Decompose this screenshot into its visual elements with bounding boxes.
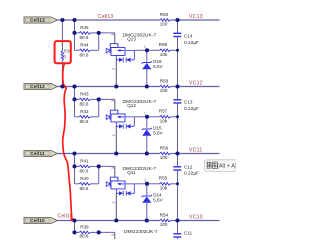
resistor R59 [147, 49, 178, 52]
transistor Q13 [106, 44, 134, 63]
svg-text:VC10: VC10 [189, 215, 203, 221]
connector Cell13 [24, 17, 58, 23]
junction source on Cell12 rail [114, 84, 118, 88]
value C12 0.22uF [184, 171, 199, 177]
svg-text:VC12: VC12 [189, 81, 203, 87]
wire cap bus upper [177, 20, 179, 33]
wire drain Q11 [134, 183, 147, 185]
value D15 5.6V [153, 130, 163, 135]
svg-text:R44: R44 [80, 42, 89, 47]
wire cap bus upper [177, 87, 179, 100]
svg-text:Cell10: Cell10 [30, 218, 45, 223]
svg-text:C12: C12 [184, 165, 193, 170]
wire pair right vertical [98, 33, 100, 50]
svg-text:2: 2 [112, 68, 116, 70]
connector Cell12 [24, 83, 58, 89]
wire gate feed Q11 [99, 166, 115, 177]
wire cap bus upper (C11) [177, 221, 179, 234]
junction pair left (Q10) [72, 230, 76, 234]
label VC13 [189, 14, 203, 20]
transistor Q11 [106, 177, 134, 196]
svg-text:10k: 10k [160, 119, 168, 124]
value R56 100 [160, 155, 168, 160]
pin 3 Q12 [111, 100, 115, 102]
svg-text:2: 2 [112, 201, 116, 203]
junction cap bus [176, 49, 179, 52]
svg-text:Q12: Q12 [127, 103, 136, 108]
junction gate node [145, 182, 149, 186]
svg-text:1: 1 [144, 111, 146, 115]
label Q11 [127, 170, 136, 175]
label R36 [64, 48, 72, 53]
resistor R42 [75, 116, 99, 119]
svg-text:3: 3 [111, 234, 115, 236]
capacitor C14 [173, 33, 181, 36]
svg-text:80.6: 80.6 [80, 119, 89, 124]
value R39 80.6 [80, 234, 89, 239]
value R54 100 [160, 222, 168, 227]
junction pair left [72, 97, 76, 101]
value R40 80.6 [80, 186, 89, 191]
svg-text:R45: R45 [80, 25, 89, 30]
value R59 10k [160, 52, 168, 57]
resistor R36 0R [61, 51, 64, 61]
label Q12 [127, 103, 136, 108]
svg-text:3: 3 [111, 167, 115, 169]
svg-text:C14: C14 [184, 33, 193, 38]
label R55 [159, 175, 168, 180]
svg-text:80.6: 80.6 [80, 186, 89, 191]
junction cap bus [176, 182, 179, 185]
junction cap bus [176, 115, 179, 118]
junction pair right [97, 97, 101, 101]
svg-text:10k: 10k [160, 186, 168, 191]
wire pair right vertical [98, 99, 100, 116]
svg-text:5.6V: 5.6V [153, 130, 163, 135]
resistor R58 [160, 85, 178, 88]
label D16 [153, 59, 162, 64]
svg-text:Cell11: Cell11 [30, 151, 45, 156]
junction pair left [72, 31, 76, 35]
wire gate feed Q10 [99, 232, 115, 239]
svg-text:R54: R54 [160, 212, 169, 217]
svg-text:100: 100 [160, 155, 168, 160]
wire pair right vertical [98, 166, 100, 183]
svg-text:R39: R39 [80, 224, 89, 229]
label D15 [153, 125, 162, 130]
diode D15 zener [142, 117, 152, 154]
junction VC11/cap node [175, 151, 179, 155]
svg-text:1: 1 [144, 178, 146, 182]
svg-text:R40: R40 [80, 176, 89, 181]
tooltip screenshot (Alt+A) [205, 160, 239, 172]
value R44 80.6 [80, 52, 89, 57]
junction balance pair Cell11 [72, 151, 76, 155]
svg-text:5.6V: 5.6V [153, 197, 163, 202]
resistor R39 [75, 231, 99, 234]
junction balance pair Cell10 [72, 218, 76, 222]
svg-text:5.6V: 5.6V [153, 64, 163, 69]
junction R36 branch [60, 18, 64, 22]
net label Cell13 [98, 14, 113, 20]
svg-text:1: 1 [144, 45, 146, 49]
label C12 [184, 165, 193, 170]
junction VC10/cap node [175, 218, 179, 222]
label R40 [80, 176, 89, 181]
junction source on Cell11 rail [114, 151, 118, 155]
wire VC11 stub [178, 153, 220, 155]
wire cap bus lower [177, 103, 179, 153]
value R55 10k [160, 186, 168, 191]
junction R36 on Cell12 rail [60, 84, 64, 88]
wire drain Q12 [134, 116, 147, 118]
svg-text:R60: R60 [160, 12, 169, 17]
junction pair right (Q10) [97, 230, 101, 234]
svg-text:R59: R59 [159, 42, 168, 47]
resistor R44 [75, 49, 99, 52]
svg-text:C11: C11 [184, 231, 193, 236]
value D16 5.6V [153, 64, 163, 69]
resistor R56 [160, 152, 178, 155]
capacitor C11 [173, 234, 181, 237]
wire R36 upper [61, 20, 63, 51]
value R57 10k [160, 119, 168, 124]
resistor R43 [75, 98, 99, 101]
label R58 [160, 78, 169, 83]
svg-text:R58: R58 [160, 78, 169, 83]
label Q13 [127, 37, 136, 42]
label R57 [159, 108, 168, 113]
wire cap bus upper [177, 154, 179, 167]
label R43 [80, 91, 89, 96]
net label Cell10 [58, 214, 73, 220]
junction VC13/cap node [175, 18, 179, 22]
svg-text:Q11: Q11 [127, 170, 136, 175]
capacitor C12 [173, 167, 181, 170]
wire VC10 stub [178, 220, 220, 222]
connector Cell11 [24, 150, 58, 156]
junction pair right [97, 31, 101, 35]
wire Cell11 rail [58, 153, 160, 155]
value R41 80.6 [80, 168, 89, 173]
svg-text:80.6: 80.6 [80, 101, 89, 106]
svg-text:R55: R55 [159, 175, 168, 180]
wire pair left vertical [74, 154, 76, 184]
capacitor C13 [173, 100, 181, 103]
wire R36 lower [61, 61, 63, 87]
resistor R41 [75, 165, 99, 168]
label C13 [184, 99, 193, 104]
wire source Q12 [115, 127, 117, 154]
label Q10 part [124, 229, 158, 235]
wire source Q11 [115, 194, 117, 221]
pin 2 Q11 [112, 201, 116, 203]
svg-text:100: 100 [160, 88, 168, 93]
svg-text:0.22µF: 0.22µF [184, 171, 199, 177]
junction gate node [145, 115, 149, 119]
junction VC12/cap node [175, 84, 179, 88]
pin 1 Q13 [144, 45, 146, 49]
svg-text:R56: R56 [160, 145, 169, 150]
value R60 100 [160, 21, 168, 26]
wire source Q13 [115, 60, 117, 87]
svg-text:Cell10: Cell10 [58, 214, 73, 220]
svg-text:100: 100 [160, 21, 168, 26]
label R60 [160, 12, 169, 17]
svg-text:VC11: VC11 [189, 148, 203, 154]
diode D14 zener [142, 184, 152, 221]
label VC11 [189, 148, 203, 154]
resistor R55 [147, 183, 178, 186]
label Q13 part [123, 32, 157, 38]
junction pair right [97, 164, 101, 168]
annotation red box around R36 [55, 41, 71, 63]
svg-text:2: 2 [112, 134, 116, 136]
svg-text:Cell12: Cell12 [30, 84, 45, 89]
resistor R45 [75, 32, 99, 35]
junction source on Cell10 rail [114, 218, 118, 222]
label R39 [80, 224, 89, 229]
connector Cell10 [24, 217, 58, 223]
label VC12 [189, 81, 203, 87]
junction balance pair Cell13 [72, 18, 76, 22]
wire cap bus lower [177, 37, 179, 87]
svg-text:R41: R41 [80, 158, 89, 163]
label Q11 part [123, 166, 157, 172]
label C11 [184, 231, 193, 236]
value C14 0.22uF [184, 40, 199, 46]
svg-text:0.22µF: 0.22µF [184, 40, 199, 46]
value R42 80.6 [80, 119, 89, 124]
junction gate node [145, 48, 149, 52]
wire gate feed Q13 [99, 33, 115, 44]
resistor R57 [147, 116, 178, 119]
label R41 [80, 158, 89, 163]
svg-text:3: 3 [111, 34, 115, 36]
svg-text:Cell13: Cell13 [30, 18, 45, 23]
resistor R40 [75, 183, 99, 186]
svg-text:0: 0 [63, 54, 66, 59]
wire VC12 stub [178, 86, 220, 88]
svg-text:DMG2302UK-7: DMG2302UK-7 [124, 229, 158, 235]
wire VC13 stub [178, 19, 220, 21]
pin 1 Q12 [144, 111, 146, 115]
label R54 [160, 212, 169, 217]
value R36 0 [63, 54, 66, 59]
pin 3 Q13 [111, 34, 115, 36]
svg-text:100: 100 [160, 222, 168, 227]
label R59 [159, 42, 168, 47]
diode D16 zener [142, 50, 152, 86]
svg-text:3: 3 [111, 100, 115, 102]
svg-text:80.6: 80.6 [80, 168, 89, 173]
svg-text:80.6: 80.6 [80, 234, 89, 239]
label R56 [160, 145, 169, 150]
wire cap bus lower (C11) [177, 237, 179, 239]
pin 2 Q12 [112, 134, 116, 136]
wire drain Q13 [134, 49, 147, 51]
value R45 80.6 [80, 35, 89, 40]
svg-text:80.6: 80.6 [80, 35, 89, 40]
transistor Q12 [106, 110, 134, 129]
pin 3 Q11 [111, 167, 115, 169]
wire Cell12 rail [58, 86, 160, 88]
wire cap bus lower [177, 170, 179, 220]
svg-text:R57: R57 [159, 108, 168, 113]
pin 3 Q10 [111, 234, 115, 236]
label Q12 part [123, 99, 157, 105]
value R43 80.6 [80, 101, 89, 106]
pin 1 Q11 [144, 178, 146, 182]
annotation red stroke [63, 64, 74, 222]
junction D14 anode on rail [145, 218, 149, 222]
wire pair left vertical [74, 87, 76, 117]
svg-text:80.6: 80.6 [80, 52, 89, 57]
label C14 [184, 33, 193, 38]
label R45 [80, 25, 89, 30]
junction balance pair Cell12 [72, 84, 76, 88]
label D14 [153, 192, 162, 197]
label VC10 [189, 215, 203, 221]
svg-text:Q13: Q13 [127, 37, 136, 42]
svg-text:10k: 10k [160, 52, 168, 57]
value R58 100 [160, 88, 168, 93]
svg-text:VC13: VC13 [189, 14, 203, 20]
label R44 [80, 42, 89, 47]
junction D16 anode on rail [145, 84, 149, 88]
svg-text:C13: C13 [184, 99, 193, 104]
resistor R60 [160, 19, 178, 22]
value C13 0.22uF [184, 106, 199, 112]
wire pair left vertical (Q10) [74, 221, 76, 233]
junction pair left [72, 164, 76, 168]
svg-text:R42: R42 [80, 109, 89, 114]
wire pair left vertical [74, 20, 76, 50]
wire gate feed Q12 [99, 99, 115, 110]
pin 2 Q13 [112, 68, 116, 70]
svg-text:R43: R43 [80, 91, 89, 96]
svg-text:Cell13: Cell13 [98, 14, 113, 20]
svg-text:0.22µF: 0.22µF [184, 106, 199, 112]
wire Cell10 rail [58, 220, 160, 222]
wire Cell13 rail [58, 19, 160, 21]
junction D15 anode on rail [145, 151, 149, 155]
svg-text:(Alt + A): (Alt + A) [217, 164, 236, 170]
label R42 [80, 109, 89, 114]
value D14 5.6V [153, 197, 163, 202]
resistor R54 [160, 219, 178, 222]
